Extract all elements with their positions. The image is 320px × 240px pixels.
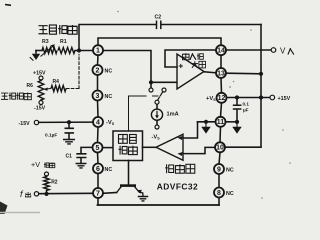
pin 13 bbox=[216, 68, 226, 78]
capacitor 0.1uF (on +15V) bbox=[233, 105, 242, 109]
junction pin11 left bbox=[204, 120, 208, 124]
wire pin 11 right bbox=[226, 121, 239, 123]
switch left contact bbox=[149, 84, 153, 92]
svg-text:C2: C2 bbox=[155, 15, 162, 21]
resistor R2 bbox=[44, 176, 50, 192]
scan specks bbox=[117, 11, 291, 199]
svg-text:-VS: -VS bbox=[106, 120, 115, 126]
svg-text:µF: µF bbox=[243, 108, 249, 113]
pin 6 bbox=[93, 164, 103, 174]
pin 7 bbox=[93, 188, 103, 198]
svg-text:5: 5 bbox=[96, 145, 100, 152]
terminal f out bbox=[34, 192, 38, 196]
wire pin11-pin10 bbox=[219, 127, 222, 143]
wire pin 13 to right vertical bbox=[226, 72, 261, 75]
svg-text:R2: R2 bbox=[51, 180, 58, 186]
wire monostable to transistor base bbox=[128, 161, 130, 185]
svg-text:NC: NC bbox=[226, 167, 234, 173]
svg-text:+15V: +15V bbox=[278, 96, 291, 102]
capacitor C1 bbox=[76, 154, 86, 158]
resistor R4 bbox=[51, 86, 66, 92]
ground (0.1uF -15V) bbox=[63, 140, 75, 144]
current source 1mA bbox=[151, 109, 162, 120]
pin 2 bbox=[93, 65, 103, 75]
node A junction (R1/C2/pin1) bbox=[77, 48, 81, 52]
pin 5 bbox=[93, 143, 103, 153]
wire pin 11 left bbox=[198, 121, 216, 123]
junction 0.1uF decoupling bbox=[67, 120, 71, 124]
junction +15V/right vertical bbox=[259, 95, 263, 99]
scan streak bottom-left bbox=[0, 212, 40, 214]
svg-text:13: 13 bbox=[217, 70, 225, 77]
svg-text:+V: +V bbox=[31, 160, 40, 169]
pin 11 bbox=[216, 117, 226, 127]
label 增益调节 (gain adjust) bbox=[39, 25, 78, 34]
ground (left of R3) bbox=[30, 51, 40, 61]
potentiometer R6 bbox=[38, 80, 44, 101]
wire pin 14 to op-amp + input bbox=[165, 50, 216, 67]
junction cap/pin11 right bbox=[235, 120, 239, 124]
svg-text:+15V: +15V bbox=[33, 71, 46, 77]
wire pin4-pin5 bbox=[97, 127, 100, 143]
svg-text:NC: NC bbox=[105, 167, 113, 173]
scan blot bottom-left bbox=[0, 202, 8, 215]
svg-text:11: 11 bbox=[217, 119, 225, 126]
wire R1 to pin 1 bbox=[75, 50, 93, 52]
comparator + input wire to pin 11 net bbox=[183, 122, 198, 138]
wire pin12-pin11 bbox=[221, 103, 222, 117]
svg-text:R6: R6 bbox=[27, 83, 34, 89]
wire ground to R3 bbox=[36, 50, 42, 52]
switch pole bbox=[155, 100, 159, 104]
wire pin6-pin7 bbox=[97, 174, 99, 189]
svg-text:R3: R3 bbox=[42, 39, 49, 45]
wire pin 5 to monostable box bbox=[103, 147, 114, 149]
wire pin 7 to transistor bbox=[103, 192, 117, 195]
ground (C1) bbox=[76, 164, 87, 168]
svg-text:2: 2 bbox=[96, 67, 100, 74]
svg-text:V: V bbox=[280, 47, 286, 56]
terminal R6 top bbox=[39, 76, 43, 80]
wire C2 to right vertical bbox=[162, 24, 262, 26]
capacitor C2 bbox=[157, 21, 161, 30]
wire monostable to comparator bbox=[143, 146, 157, 148]
switch lever bbox=[158, 92, 163, 100]
wire pin 14 to V-in terminal bbox=[226, 49, 271, 51]
pin 14 bbox=[216, 45, 226, 55]
wire pin2-pin3 bbox=[97, 75, 99, 91]
wire pin 12 to +15V terminal bbox=[227, 97, 271, 99]
wire pin9-pin8 bbox=[218, 174, 220, 188]
label 比较器 (comparator) bbox=[165, 164, 195, 173]
svg-text:ADVFC32: ADVFC32 bbox=[157, 181, 198, 191]
resistor R1 bbox=[58, 48, 75, 54]
transistor Q1 bbox=[117, 186, 144, 197]
label V-in bbox=[280, 47, 294, 56]
comparator U2 bbox=[156, 134, 183, 160]
terminal -15V bbox=[34, 120, 38, 124]
wire junction to op-amp inverting input bbox=[151, 81, 177, 83]
wire current source to -Vs terminal bbox=[156, 120, 158, 125]
wire pin7 to bottom rail bbox=[97, 198, 99, 205]
svg-text:9: 9 bbox=[217, 166, 221, 173]
svg-text:10: 10 bbox=[216, 145, 224, 152]
wire node A up to C2 rail bbox=[79, 25, 156, 51]
label 零位调节 (zero adjust) bbox=[1, 93, 31, 100]
label 输入放大器 (input amplifier) bbox=[183, 53, 206, 68]
svg-text:4: 4 bbox=[96, 119, 100, 126]
svg-text:NC: NC bbox=[105, 68, 113, 74]
capacitor 0.1uF (on -15V) bbox=[65, 128, 75, 133]
arrow ground (right of pin 11) bbox=[232, 122, 241, 134]
svg-text:1: 1 bbox=[96, 48, 100, 55]
arrow ground (left of pin 11) bbox=[201, 122, 210, 134]
comparator - input wire to pin 10 bbox=[183, 147, 215, 153]
svg-text:6: 6 bbox=[96, 166, 100, 173]
svg-text:NC: NC bbox=[226, 191, 234, 197]
svg-text:12: 12 bbox=[218, 95, 226, 102]
svg-text:-15V: -15V bbox=[19, 121, 31, 127]
terminal +Vlogic bbox=[45, 172, 49, 176]
wire op-amp output to pin 13 bbox=[204, 72, 216, 73]
scan mark top-left bbox=[5, 4, 11, 7]
junction R2/f out bbox=[44, 192, 48, 196]
wire pin13-pin12 bbox=[220, 78, 223, 93]
svg-text:NC: NC bbox=[105, 94, 113, 100]
wire pin8 to bottom rail bbox=[218, 198, 220, 206]
bottom rail wire bbox=[98, 204, 220, 206]
wire pin5-pin6 bbox=[97, 153, 100, 164]
junction 0.1uF decoupling (+15V) bbox=[235, 95, 239, 99]
pin 9 bbox=[214, 164, 224, 174]
svg-text:+VS: +VS bbox=[206, 96, 216, 102]
svg-text:7: 7 bbox=[96, 190, 100, 197]
junction (switch/op-amp - input) bbox=[149, 80, 153, 84]
label 0.1uF (right) bbox=[243, 102, 250, 113]
junction pin13/C2 bbox=[259, 72, 263, 76]
svg-text:0.1: 0.1 bbox=[243, 102, 250, 107]
wire f out to pin 7 bbox=[39, 192, 93, 194]
svg-text:-15V: -15V bbox=[34, 106, 46, 112]
resistor R3 (trimmer) bbox=[41, 44, 58, 56]
wire capacitor to ground bbox=[68, 134, 70, 140]
wire C1 to ground bbox=[80, 158, 82, 163]
svg-text:R4: R4 bbox=[53, 79, 60, 85]
op-amp U1 bbox=[177, 54, 204, 89]
wire pin10-pin9 bbox=[219, 152, 220, 164]
svg-text:R1: R1 bbox=[60, 39, 67, 45]
svg-text:1mA: 1mA bbox=[167, 112, 179, 118]
wire junction to capacitor bbox=[68, 122, 70, 128]
wire pin 1 to pin 14 (top rail 2) bbox=[98, 38, 221, 45]
wire 0.1uF to pin11 net bbox=[236, 110, 238, 122]
pin 10 bbox=[215, 142, 225, 152]
svg-text:8: 8 bbox=[217, 190, 221, 197]
wire pin 5 to C1 bbox=[81, 147, 93, 153]
pin 8 bbox=[214, 188, 224, 198]
pin 12 bbox=[217, 93, 227, 103]
terminal +15V bbox=[270, 95, 275, 100]
monostable box 单稳电路 bbox=[113, 131, 143, 161]
wire junction to 0.1uF cap bbox=[236, 98, 238, 105]
label +V logic bbox=[31, 160, 55, 169]
R6 wiper arrow bbox=[43, 88, 51, 91]
svg-text:3: 3 bbox=[96, 93, 100, 100]
svg-text:0.1µF: 0.1µF bbox=[45, 132, 57, 138]
switch right contact bbox=[162, 88, 166, 92]
svg-text:14: 14 bbox=[217, 48, 225, 55]
label f out bbox=[20, 189, 31, 199]
terminal -Vs (current source) bbox=[155, 125, 159, 129]
wire pole to current source bbox=[156, 104, 158, 109]
wire pin3-pin4 bbox=[97, 101, 100, 118]
terminal R6 bottom bbox=[39, 101, 43, 105]
svg-text:-VS: -VS bbox=[152, 135, 161, 141]
wire pin 1 to op-amp input node bbox=[103, 51, 151, 83]
svg-text:C1: C1 bbox=[66, 154, 73, 160]
ground (transistor emitter) bbox=[138, 197, 149, 201]
terminal V-in bbox=[271, 48, 276, 53]
wire pin1-pin2 bbox=[97, 55, 100, 65]
pin 1 bbox=[93, 45, 103, 55]
pin 3 bbox=[93, 91, 103, 101]
wire -15V to pin 4 bbox=[39, 121, 93, 123]
wire pin14-pin13 bbox=[220, 55, 222, 68]
dashed wire R4 to node A bbox=[67, 55, 80, 89]
pin 4 bbox=[93, 117, 103, 127]
switch control link (dashed) bbox=[129, 96, 159, 131]
wire right vertical (C2 feedback / +15V / pin10 bus) bbox=[260, 25, 262, 148]
wire pin 10 to right vertical bbox=[225, 146, 261, 148]
